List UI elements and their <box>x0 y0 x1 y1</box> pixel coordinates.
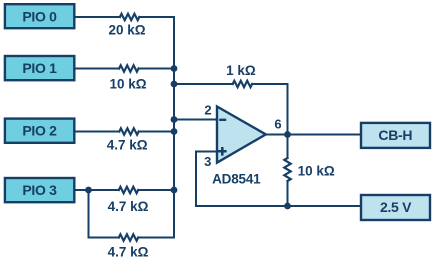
svg-text:2: 2 <box>204 103 211 118</box>
wire pin2 input <box>174 119 217 121</box>
wire PIO2 to bus <box>75 131 175 133</box>
svg-text:10 kΩ: 10 kΩ <box>298 164 335 179</box>
svg-text:4.7 kΩ: 4.7 kΩ <box>107 138 148 153</box>
svg-text:1 kΩ: 1 kΩ <box>226 63 256 78</box>
box CB-H <box>361 123 430 148</box>
svg-text:CB-H: CB-H <box>378 127 412 143</box>
op-amp plus sign <box>218 147 227 156</box>
svg-text:20 kΩ: 20 kΩ <box>108 22 145 37</box>
svg-text:3: 3 <box>204 154 211 169</box>
svg-text:6: 6 <box>274 117 281 132</box>
svg-text:PIO 0: PIO 0 <box>22 8 57 24</box>
wire output to 10k divider <box>287 135 289 207</box>
svg-text:PIO 1: PIO 1 <box>22 60 57 76</box>
junction node output <box>284 131 291 138</box>
wire PIO0 to bus <box>75 16 175 18</box>
box PIO 1 <box>5 56 74 80</box>
resistor R 4.7k lower zigzag <box>119 234 138 240</box>
wire pin3 to 2.5V rail <box>196 152 217 207</box>
box 2.5 V <box>361 195 430 220</box>
resistor R 10k divider zigzag <box>284 158 290 181</box>
wire output to CB-H <box>266 134 361 136</box>
box PIO 0 <box>5 4 74 28</box>
resistor R 4.7k PIO3 zigzag <box>119 187 138 193</box>
svg-text:10 kΩ: 10 kΩ <box>109 77 146 92</box>
svg-text:AD8541: AD8541 <box>212 171 261 186</box>
svg-text:4.7 kΩ: 4.7 kΩ <box>108 245 149 258</box>
wire vertical bus <box>173 17 175 238</box>
svg-text:2.5 V: 2.5 V <box>380 199 412 215</box>
resistor R 20k zigzag <box>120 14 139 20</box>
wire 2.5V rail <box>196 205 361 207</box>
junction node PIO3/bus <box>171 187 178 194</box>
junction node PIO3 split <box>85 187 92 194</box>
wire lower parallel loop <box>89 190 175 238</box>
wire PIO1 to bus <box>75 68 175 70</box>
svg-text:PIO 3: PIO 3 <box>22 182 57 198</box>
junction node feedback/bus <box>171 81 178 88</box>
junction node pin2/bus <box>171 116 178 123</box>
op-amp U1 AD8541 triangle <box>217 107 266 163</box>
wire PIO3 to bus <box>75 189 175 191</box>
junction node PIO2/bus <box>171 128 178 135</box>
svg-text:4.7 kΩ: 4.7 kΩ <box>108 199 149 214</box>
junction node 2.5V rail <box>284 203 291 210</box>
svg-text:PIO 2: PIO 2 <box>22 123 57 139</box>
junction node PIO1/bus <box>171 65 178 72</box>
op-amp minus sign <box>219 119 226 121</box>
resistor R 4.7k upper zigzag <box>119 128 138 134</box>
box PIO 3 <box>5 178 74 202</box>
resistor R 1k zigzag <box>233 81 252 87</box>
box PIO 2 <box>5 119 74 143</box>
resistor R 10k zigzag <box>119 65 138 71</box>
wire feedback top <box>174 84 288 135</box>
